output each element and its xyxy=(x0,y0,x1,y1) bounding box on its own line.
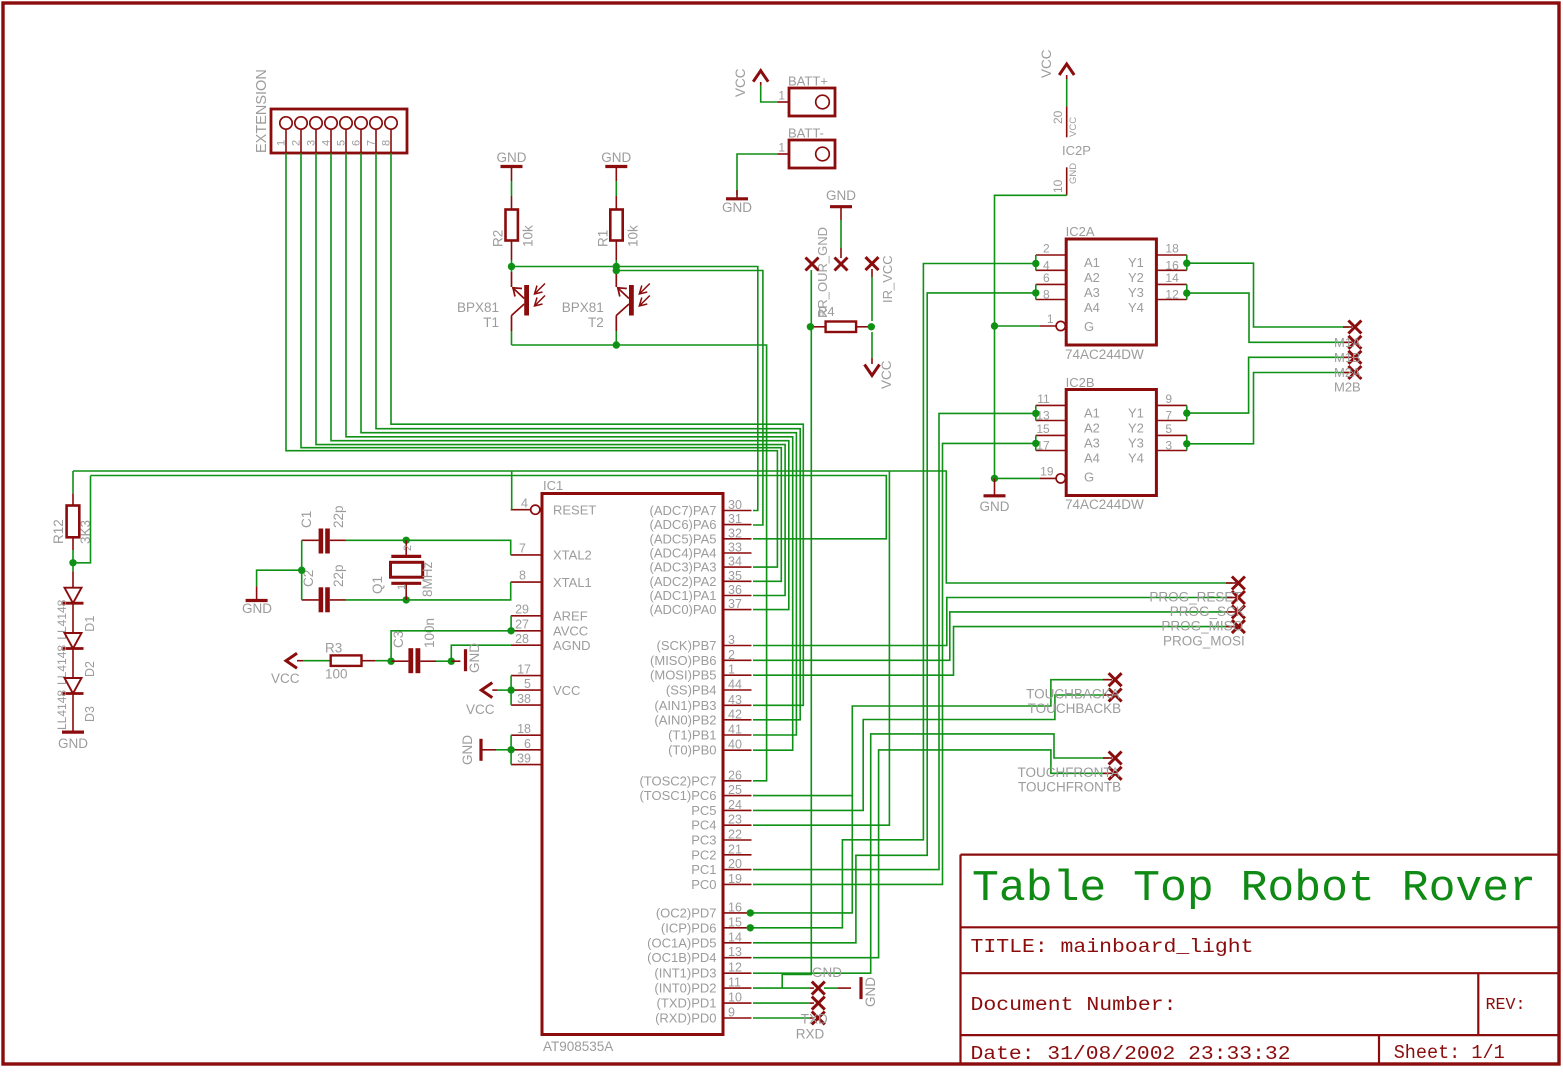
svg-text:G: G xyxy=(1084,319,1094,334)
svg-text:100n: 100n xyxy=(422,618,437,648)
svg-text:4: 4 xyxy=(521,497,528,511)
IC1 pin 1 stub xyxy=(723,674,752,676)
X M2B xyxy=(1348,366,1361,379)
resistor R2 top pin xyxy=(511,196,513,210)
svg-text:6: 6 xyxy=(1043,271,1050,285)
net M1A xyxy=(1186,263,1349,327)
wire xyxy=(72,563,74,572)
IC2B pins 5/3 Y3 xyxy=(1156,434,1186,436)
pin xyxy=(1066,75,1068,79)
svg-text:6: 6 xyxy=(524,737,531,751)
svg-text:PC0: PC0 xyxy=(691,877,716,892)
ground at pin 6 xyxy=(479,739,482,761)
label pin xyxy=(810,987,814,989)
EXTENSION pad 7 xyxy=(370,117,382,129)
svg-text:BATT+: BATT+ xyxy=(788,74,828,89)
net M2B xyxy=(1186,373,1349,444)
svg-text:1: 1 xyxy=(1047,312,1054,326)
svg-text:31: 31 xyxy=(728,512,742,526)
EXTENSION pad 4 xyxy=(325,117,337,129)
junction xyxy=(613,263,620,270)
svg-text:VCC: VCC xyxy=(1039,49,1054,78)
svg-text:19: 19 xyxy=(728,872,742,886)
svg-text:7: 7 xyxy=(519,542,526,556)
svg-text:R1: R1 xyxy=(595,230,610,247)
X PROG_MOSI xyxy=(1232,620,1245,633)
svg-text:IC2P: IC2P xyxy=(1062,143,1091,158)
IC1 pin 32 stub xyxy=(723,538,752,540)
junction xyxy=(1183,260,1190,267)
svg-text:TOUCHFRONTB: TOUCHFRONTB xyxy=(1018,780,1121,795)
net EXT8 wire xyxy=(391,153,803,705)
EXTENSION pad 1 xyxy=(280,117,292,129)
svg-text:D1: D1 xyxy=(83,616,97,632)
svg-text:29: 29 xyxy=(515,603,529,617)
IC IC2A 74AC244DW xyxy=(1066,239,1156,345)
net VCC lower xyxy=(871,332,873,358)
T1 collector pin xyxy=(511,272,513,287)
IC1 pin 29 AREF stub xyxy=(511,615,542,617)
label pin xyxy=(810,1002,814,1004)
net AVCC wire xyxy=(391,631,511,661)
capacitor C1 22p xyxy=(319,529,324,554)
junction xyxy=(387,658,394,665)
X PROG_SCK xyxy=(1232,591,1245,604)
X TXD xyxy=(812,997,825,1010)
D2 anode pin xyxy=(72,617,74,633)
svg-text:PROG_RESET: PROG_RESET xyxy=(1149,590,1241,605)
svg-text:1: 1 xyxy=(728,663,735,677)
net PC3 up to reset rail xyxy=(753,471,889,825)
X TOUCHBACKA xyxy=(1109,673,1122,686)
IC1 pin 43 stub xyxy=(723,704,752,706)
wire xyxy=(511,331,513,345)
ground right of pin 11 xyxy=(859,977,862,999)
IC2A pins 14/12 Y3 xyxy=(1156,283,1186,285)
resistor R2 bottom pin xyxy=(511,241,513,261)
X M1B xyxy=(1348,336,1361,349)
wire xyxy=(72,471,74,493)
svg-text:38: 38 xyxy=(517,692,531,706)
EXTENSION pad 2 xyxy=(295,117,307,129)
svg-text:AT908535A: AT908535A xyxy=(543,1039,613,1054)
svg-text:8: 8 xyxy=(519,569,526,583)
svg-text:PC5: PC5 xyxy=(691,803,716,818)
IC1 pin 4 RESET xyxy=(531,505,540,514)
R4 right pin xyxy=(856,326,871,328)
junction xyxy=(991,475,998,482)
IC2P pin 20 VCC xyxy=(1066,106,1068,137)
junction xyxy=(508,263,515,270)
net EXT5 wire xyxy=(346,153,793,750)
svg-text:6: 6 xyxy=(351,140,363,146)
svg-text:3: 3 xyxy=(306,140,318,146)
svg-text:2: 2 xyxy=(402,545,414,551)
IC IC1 AT90S8535 xyxy=(542,494,723,1035)
net PD6 to IC2A A1/A2 xyxy=(753,264,1036,928)
wire xyxy=(615,331,617,345)
IC1 pin 42 stub xyxy=(723,719,752,721)
net EXT7 wire xyxy=(376,153,800,720)
X M2A xyxy=(1348,351,1361,364)
IC2B pins 9/7 Y1 xyxy=(1156,404,1186,406)
IC2A pins 18/16 Y1 xyxy=(1156,254,1186,256)
svg-text:RXD: RXD xyxy=(796,1027,825,1042)
svg-text:(ADC0)PA0: (ADC0)PA0 xyxy=(650,602,717,617)
svg-text:74AC244DW: 74AC244DW xyxy=(1065,347,1144,362)
IC1 pin 37 stub xyxy=(723,609,752,611)
IC1 pin 13 stub xyxy=(723,957,752,959)
gnd pin xyxy=(451,660,460,662)
svg-text:TOUCHBACKA: TOUCHBACKA xyxy=(1026,687,1120,702)
diode D2 LL4148 xyxy=(65,633,82,649)
svg-text:A4: A4 xyxy=(1084,451,1100,466)
T1 emitter pin xyxy=(511,316,513,332)
svg-text:18: 18 xyxy=(1165,242,1179,256)
svg-text:Y3: Y3 xyxy=(1128,436,1144,451)
IC2B pin 19 G xyxy=(1056,474,1065,483)
svg-text:(T1)PB1: (T1)PB1 xyxy=(668,728,716,743)
svg-text:44: 44 xyxy=(728,678,742,692)
D3 anode pin xyxy=(72,662,74,678)
IC2A pins 2/4 A1 xyxy=(1036,254,1066,256)
svg-text:VCC: VCC xyxy=(466,702,495,717)
net PD5 to IC2A A3/A4 xyxy=(753,293,1036,943)
net PC1 to IC2B A1/A2 xyxy=(753,413,1036,869)
net EXT4 wire xyxy=(331,153,789,610)
svg-text:GND: GND xyxy=(722,200,752,215)
label pin xyxy=(1343,356,1352,358)
svg-text:T2: T2 xyxy=(588,315,604,330)
junction xyxy=(991,322,998,329)
X PROG_RESET xyxy=(1232,577,1245,590)
svg-text:(T0)PB0: (T0)PB0 xyxy=(668,743,716,758)
svg-text:(ADC5)PA5: (ADC5)PA5 xyxy=(650,531,717,546)
svg-text:(MISO)PB6: (MISO)PB6 xyxy=(650,653,716,668)
IC2P pin 10 GND xyxy=(1066,167,1068,195)
gnd pin xyxy=(838,987,851,989)
capacitor C2 22p xyxy=(319,587,324,612)
label pin xyxy=(1226,626,1236,628)
svg-text:Y1: Y1 xyxy=(1128,406,1144,421)
svg-text:TITLE: mainboard_light: TITLE: mainboard_light xyxy=(971,936,1254,958)
net PROG_MOSI xyxy=(753,627,1232,676)
svg-text:22p: 22p xyxy=(331,564,346,587)
diode D3 LL4148 xyxy=(65,678,82,694)
net pin9 RXD xyxy=(753,1017,810,1019)
net EXT2 wire xyxy=(301,153,781,581)
IC1 pin 21 stub xyxy=(723,854,752,856)
label pin xyxy=(810,1017,814,1019)
ground below D3 xyxy=(62,730,84,733)
IC1 pin 36 stub xyxy=(723,595,752,597)
svg-text:Date: 31/08/2002 23:33:32: Date: 31/08/2002 23:33:32 xyxy=(971,1043,1291,1065)
svg-text:PC2: PC2 xyxy=(691,847,716,862)
label pin xyxy=(840,248,842,258)
svg-text:3: 3 xyxy=(728,633,735,647)
svg-text:GND: GND xyxy=(497,150,527,165)
wire xyxy=(497,689,511,691)
svg-text:PC1: PC1 xyxy=(691,862,716,877)
EXTENSION pad 5 xyxy=(340,117,352,129)
svg-text:GND: GND xyxy=(460,735,475,765)
net TOUCHFRONTA from PD3 xyxy=(753,734,1109,973)
junction xyxy=(747,924,754,931)
svg-text:7: 7 xyxy=(366,140,378,146)
IC1 pin 24 stub xyxy=(723,809,752,811)
net pin10 TXD xyxy=(753,1002,810,1004)
svg-text:14: 14 xyxy=(1165,271,1179,285)
EXTENSION pin 7 stub xyxy=(375,129,377,153)
ground above R2 xyxy=(501,165,523,168)
svg-text:22p: 22p xyxy=(331,505,346,528)
junction xyxy=(747,909,754,916)
svg-text:M2A: M2A xyxy=(1334,365,1361,380)
svg-text:8: 8 xyxy=(381,140,393,146)
svg-text:M1A: M1A xyxy=(1334,335,1361,350)
net TOUCHBACKA from PD7 xyxy=(753,680,1109,913)
IC1 pin 27 AVCC stub xyxy=(511,630,542,632)
svg-text:(ADC2)PA2: (ADC2)PA2 xyxy=(650,574,717,589)
pin xyxy=(297,660,303,662)
EXTENSION pin 6 stub xyxy=(360,129,362,153)
ground above RR_OUR_GND xyxy=(830,205,852,208)
svg-text:(SS)PB4: (SS)PB4 xyxy=(666,683,717,698)
svg-text:15: 15 xyxy=(728,915,742,929)
svg-text:PROG_MOSI: PROG_MOSI xyxy=(1163,634,1245,649)
svg-text:R2: R2 xyxy=(491,230,506,247)
crystal Q1 8MHz xyxy=(391,555,421,558)
net SENS2 R1-PA6 xyxy=(616,271,763,526)
svg-text:40: 40 xyxy=(728,738,742,752)
junction xyxy=(807,323,814,330)
svg-text:1: 1 xyxy=(778,89,785,103)
pin R2 gnd stub xyxy=(511,167,513,182)
svg-text:2: 2 xyxy=(728,648,735,662)
svg-text:15: 15 xyxy=(1036,422,1050,436)
net EXT3 wire xyxy=(316,153,785,596)
svg-text:36: 36 xyxy=(728,583,742,597)
net PC0 to IC2B A3/A4 xyxy=(753,443,1036,884)
svg-text:D3: D3 xyxy=(83,706,97,722)
svg-text:2: 2 xyxy=(1043,242,1050,256)
X at pin 11 xyxy=(812,982,825,995)
IC1 pin 14 stub xyxy=(723,942,752,944)
svg-text:30: 30 xyxy=(728,498,742,512)
net pin11 to X xyxy=(753,987,810,989)
svg-text:Document Number:: Document Number: xyxy=(971,994,1177,1016)
X TOUCHFRONTA xyxy=(1109,752,1122,765)
IC1 pin 12 stub xyxy=(723,972,752,974)
VCC symbol at pin 5 xyxy=(481,683,492,698)
svg-text:20: 20 xyxy=(1051,110,1065,124)
EXTENSION pad 6 xyxy=(355,117,367,129)
svg-text:5: 5 xyxy=(336,140,348,146)
IC1 pin 9 stub xyxy=(723,1017,752,1019)
svg-text:A2: A2 xyxy=(1084,421,1100,436)
X IR_VCC xyxy=(866,257,879,270)
gnd pin xyxy=(994,478,996,495)
svg-text:(INT1)PD3: (INT1)PD3 xyxy=(654,966,716,981)
svg-text:14: 14 xyxy=(728,930,742,944)
svg-text:TOUCHFRONTA: TOUCHFRONTA xyxy=(1017,765,1119,780)
svg-text:GND: GND xyxy=(601,150,631,165)
svg-text:23: 23 xyxy=(728,813,742,827)
IC1 pin 44 stub xyxy=(723,689,752,691)
svg-text:43: 43 xyxy=(728,693,742,707)
EXTENSION pin 1 stub xyxy=(285,129,287,153)
BATT- pin 1 stub xyxy=(777,153,789,155)
capacitor C3 100n xyxy=(408,648,413,673)
IC1 pin 23 stub xyxy=(723,824,752,826)
IC1 pin 10 stub xyxy=(723,1002,752,1004)
C2 left pin xyxy=(302,599,319,601)
X RR_OUR_GND xyxy=(806,258,819,271)
junction xyxy=(1183,289,1190,296)
svg-text:7: 7 xyxy=(1165,409,1172,423)
svg-text:M2B: M2B xyxy=(1334,380,1361,395)
R3 right pin xyxy=(362,660,376,662)
svg-text:10k: 10k xyxy=(521,225,536,247)
IC1 pin 2 stub xyxy=(723,659,752,661)
IC1 pin 15 stub xyxy=(723,927,752,929)
svg-text:18: 18 xyxy=(517,722,531,736)
junction xyxy=(1183,440,1190,447)
resistor R1 top pin xyxy=(615,196,617,210)
svg-text:IR_VCC: IR_VCC xyxy=(880,255,895,303)
svg-text:VCC: VCC xyxy=(733,68,748,97)
svg-text:(SCK)PB7: (SCK)PB7 xyxy=(657,638,717,653)
EXTENSION pad 8 xyxy=(385,117,397,129)
svg-text:(RXD)PD0: (RXD)PD0 xyxy=(655,1011,716,1026)
EXTENSION pin 8 stub xyxy=(390,129,392,153)
C2 right pin xyxy=(330,599,346,601)
wire xyxy=(840,220,842,248)
svg-text:A4: A4 xyxy=(1084,300,1100,315)
svg-text:32: 32 xyxy=(728,526,742,540)
net XTAL1 wire xyxy=(346,582,511,600)
IC1 pin 28 AGND stub xyxy=(511,644,542,646)
svg-text:GND: GND xyxy=(58,736,88,751)
svg-text:16: 16 xyxy=(728,900,742,914)
resistor R1 bottom pin xyxy=(615,241,617,261)
X RR_OUR_GND gnd end xyxy=(835,258,848,271)
pin xyxy=(871,358,873,364)
IC1 pin 11 stub xyxy=(723,987,752,989)
svg-text:BPX81: BPX81 xyxy=(562,300,604,315)
svg-text:A2: A2 xyxy=(1084,270,1100,285)
junction xyxy=(868,323,875,330)
junction xyxy=(507,686,514,693)
net EXT6 wire xyxy=(361,153,796,735)
resistor R4 xyxy=(826,322,857,333)
svg-text:GND: GND xyxy=(812,965,842,980)
svg-text:XTAL1: XTAL1 xyxy=(553,575,592,590)
net RESET to pin4 xyxy=(511,471,513,510)
svg-text:(ICP)PD6: (ICP)PD6 xyxy=(661,920,717,935)
svg-text:41: 41 xyxy=(728,723,742,737)
svg-text:C1: C1 xyxy=(299,511,314,528)
wire xyxy=(615,181,617,196)
svg-text:11: 11 xyxy=(1037,392,1050,406)
svg-text:BPX81: BPX81 xyxy=(457,300,499,315)
IC1 pin 35 stub xyxy=(723,580,752,582)
svg-text:3: 3 xyxy=(1165,439,1172,453)
C1 right pin xyxy=(330,539,346,541)
svg-text:Sheet: 1/1: Sheet: 1/1 xyxy=(1394,1042,1505,1064)
Q1 pin 2 xyxy=(405,540,407,556)
svg-text:1: 1 xyxy=(276,140,288,146)
D2 cathode pin xyxy=(72,649,74,663)
net M1B xyxy=(1186,293,1349,342)
svg-text:Y3: Y3 xyxy=(1128,285,1144,300)
wire R1-T2 xyxy=(615,260,617,272)
svg-text:AVCC: AVCC xyxy=(553,624,588,639)
resistor R1 xyxy=(610,210,622,241)
net stub PC5 xyxy=(753,795,852,797)
svg-text:(OC1B)PD4: (OC1B)PD4 xyxy=(647,950,716,965)
label pin xyxy=(1103,694,1112,696)
svg-text:8MHz: 8MHz xyxy=(420,561,435,597)
svg-text:19: 19 xyxy=(1040,464,1054,478)
VCC symbol top xyxy=(753,71,768,82)
junction xyxy=(1032,440,1039,447)
junction xyxy=(298,567,305,574)
junction xyxy=(448,658,455,665)
D1 anode pin xyxy=(72,571,74,587)
C1 left pin xyxy=(302,539,319,541)
svg-text:AREF: AREF xyxy=(553,609,588,624)
junction xyxy=(507,746,514,753)
label pin xyxy=(1226,582,1236,584)
junction xyxy=(403,537,410,544)
ground at C1/C2 xyxy=(246,599,268,602)
net VCC xyxy=(1066,79,1068,106)
svg-text:(ADC7)PA7: (ADC7)PA7 xyxy=(650,503,717,518)
svg-text:AGND: AGND xyxy=(553,638,591,653)
svg-text:GND: GND xyxy=(980,499,1010,514)
BATT+ pin 1 stub xyxy=(777,101,789,103)
net PROG_SCK xyxy=(753,598,1232,646)
svg-text:1: 1 xyxy=(396,584,408,590)
svg-text:Q1: Q1 xyxy=(370,576,385,594)
svg-text:M1B: M1B xyxy=(1334,350,1361,365)
junction xyxy=(1032,260,1039,267)
ground above R1 xyxy=(605,165,627,168)
IC1 pin 20 stub xyxy=(723,869,752,871)
IC IC2B 74AC244DW xyxy=(1066,390,1156,496)
svg-text:10: 10 xyxy=(1051,179,1065,193)
svg-text:(TOSC2)PC7: (TOSC2)PC7 xyxy=(639,773,716,788)
title block frame xyxy=(961,855,1560,1064)
IC1 pin 16 stub xyxy=(723,912,752,914)
diode D1 LL4148 xyxy=(65,588,82,604)
net VCC to BATT+ xyxy=(761,86,778,102)
svg-text:VCC: VCC xyxy=(1068,117,1079,137)
resistor R12 xyxy=(67,506,80,538)
wire to gnd xyxy=(257,570,302,586)
IC1 pin 7 XTAL2 stub xyxy=(511,554,542,556)
svg-text:17: 17 xyxy=(517,663,531,677)
IC2A pins 6/8 A3 xyxy=(1036,283,1066,285)
svg-text:(OC1A)PD5: (OC1A)PD5 xyxy=(647,935,716,950)
EXTENSION pin 5 stub xyxy=(345,129,347,153)
wire xyxy=(496,749,511,751)
svg-text:(ADC3)PA3: (ADC3)PA3 xyxy=(650,560,717,575)
svg-text:9: 9 xyxy=(1165,392,1172,406)
net GND to G19 xyxy=(995,477,1041,479)
svg-text:24: 24 xyxy=(728,798,742,812)
